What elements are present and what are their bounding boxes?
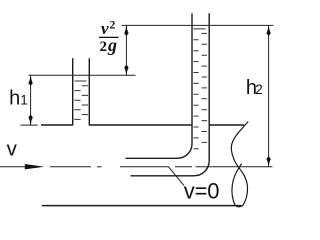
- pitot tube water dashes: [194, 29, 208, 149]
- flow centerline (dash-dot): [0, 166, 192, 168]
- dimension h1: [20, 75, 37, 125]
- water level extension line left (piezometer level): [29, 74, 136, 76]
- piezometer water dashes: [74, 81, 88, 119]
- pitot tube U-bend inner wall (left): [126, 13, 193, 158]
- dimension h2: [266, 25, 270, 166]
- svg-text:v: v: [7, 137, 18, 160]
- dimension line v^2/2g: [124, 25, 128, 75]
- label h2: [246, 77, 263, 99]
- h2 bottom extension line: [196, 166, 273, 168]
- piezometer tube T1 walls: [73, 58, 90, 125]
- wavy pipe break line: [231, 122, 248, 207]
- svg-text:2: 2: [110, 20, 116, 32]
- svg-text:v=0: v=0: [184, 179, 219, 204]
- svg-text:2: 2: [100, 39, 108, 55]
- water level extension line top (right tube level): [122, 24, 274, 26]
- flow arrow: [25, 164, 45, 169]
- pipe bottom wall: [42, 205, 242, 207]
- label h1: [9, 88, 28, 110]
- svg-text:h: h: [9, 88, 20, 110]
- pipe top wall: [41, 124, 244, 126]
- svg-text:2: 2: [255, 82, 263, 97]
- label v^2/2g fraction: [100, 19, 118, 55]
- pitot tube outer wall (right): [131, 13, 210, 176]
- fraction bar: [99, 36, 119, 38]
- svg-text:1: 1: [20, 93, 28, 108]
- leader line to stagnation point: [120, 167, 184, 186]
